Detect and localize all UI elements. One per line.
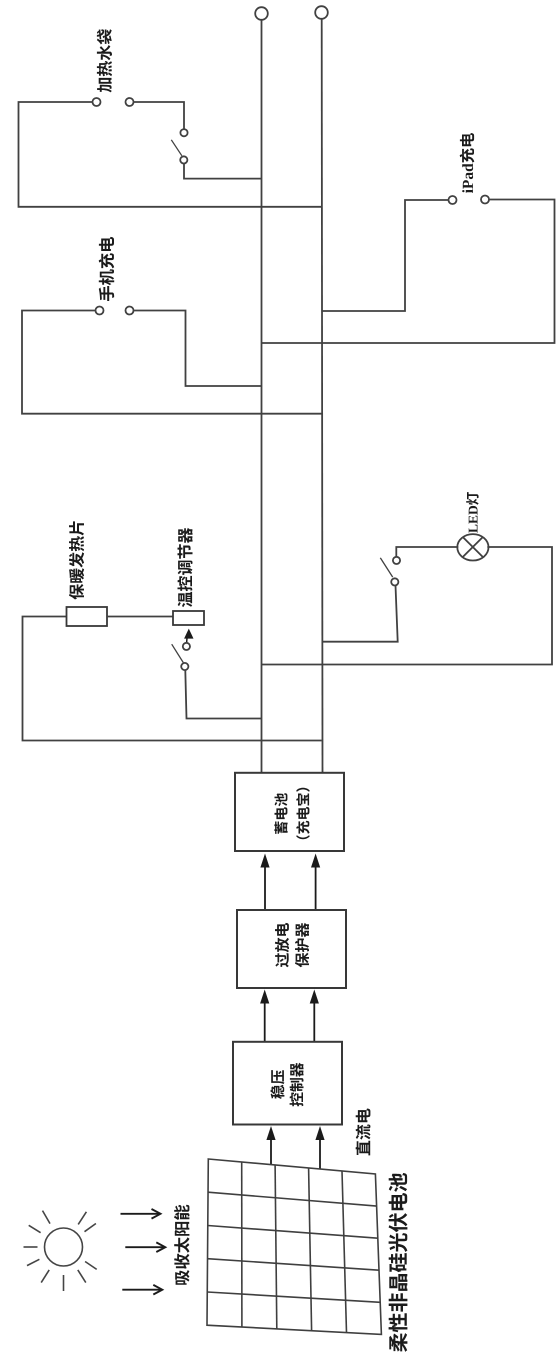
node terminal T2 (bus B output) xyxy=(315,6,328,19)
wire bus B (return rail) xyxy=(321,19,324,773)
label voltage stabilizing controller xyxy=(270,1063,303,1107)
wire phone left loop xyxy=(22,311,322,414)
wire switch S3 to bus B xyxy=(322,586,398,642)
wire lamp to switch S3 xyxy=(396,547,458,557)
terminal heating-bag pin 2 xyxy=(126,98,134,106)
arrow panel to regulator (left) xyxy=(266,1126,275,1165)
terminal iPad pin 2 xyxy=(481,196,489,204)
label LED lamp xyxy=(466,492,479,533)
lamp LED (circle with X) xyxy=(457,534,488,560)
label over-discharge protector xyxy=(275,923,309,968)
thermostat regulator box xyxy=(173,611,204,625)
terminal phone pin 2 xyxy=(126,307,134,315)
label iPad-charging load xyxy=(460,133,475,193)
label flexible amorphous silicon PV battery xyxy=(389,1173,408,1352)
wire switch S1 to bus A xyxy=(184,164,262,179)
label phone-charging load xyxy=(99,237,115,301)
arrow protector to battery (right) xyxy=(311,854,320,910)
label heating-water-bag load xyxy=(97,29,112,92)
arrow regulator to protector (left) xyxy=(260,990,269,1042)
arrow thermostat actuator (points up into box) xyxy=(184,629,193,643)
label DC current xyxy=(356,1109,371,1156)
terminal phone pin 1 xyxy=(96,307,104,315)
arrow protector to battery (left) xyxy=(260,854,269,910)
switch S2 (thermostat) xyxy=(172,643,190,670)
arrows solar energy absorption (3 chevron arrows) xyxy=(121,1209,166,1295)
wire iPad pin2 to bus A xyxy=(262,200,555,344)
label absorb solar energy xyxy=(174,1205,189,1285)
wire left feed to heater sheet xyxy=(23,617,322,741)
wire switch S2 to bus A xyxy=(185,670,261,718)
arrow panel to regulator (right) xyxy=(315,1126,324,1170)
node terminal T1 (bus A output) xyxy=(255,7,268,20)
wire heating-bag pin2 to switch xyxy=(134,102,185,129)
over-discharge protector box xyxy=(237,910,346,988)
label warming heater sheet xyxy=(69,521,84,599)
wire heater sheet to thermostat xyxy=(107,616,173,618)
wire iPad pin1 to bus B xyxy=(322,200,449,311)
terminal heating-bag pin 1 xyxy=(93,98,101,106)
voltage stabilizing controller box xyxy=(233,1042,342,1125)
label battery (power bank) xyxy=(274,788,309,839)
arrow regulator to protector (right) xyxy=(310,990,319,1042)
terminal iPad pin 1 xyxy=(449,196,457,204)
solar panel (flexible amorphous silicon PV, 5x5 grid) xyxy=(207,1159,381,1334)
wire lamp to bus A return xyxy=(262,547,553,665)
wire heating-bag left loop xyxy=(19,102,322,207)
battery (power bank) box xyxy=(235,773,344,851)
switch S3 (LED) xyxy=(380,557,400,586)
wire bus A (positive rail) xyxy=(261,20,263,773)
switch S1 (heating bag) xyxy=(171,129,187,163)
resistor heater-sheet element xyxy=(67,607,108,626)
sun rays xyxy=(24,1211,97,1291)
sun (light source) xyxy=(45,1228,83,1266)
wire phone pin2 to bus A xyxy=(134,311,262,387)
label thermostat regulator xyxy=(177,528,192,607)
